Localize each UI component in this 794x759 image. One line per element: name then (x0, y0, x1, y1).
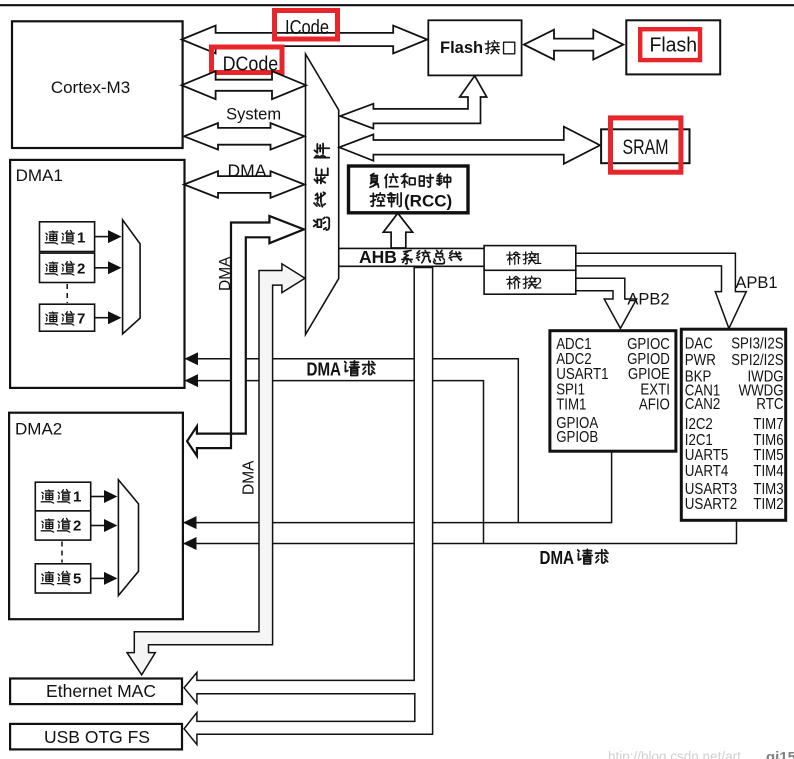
svg-text:TIM5: TIM5 (753, 447, 783, 464)
block Cortex-M3 (12, 21, 183, 148)
svg-text:5: 5 (73, 570, 81, 587)
svg-text:Flash: Flash (650, 35, 698, 57)
label RCC line2 (370, 193, 385, 206)
arrow DMA dma1-matrix (184, 171, 305, 198)
block DMA1 channel 7 (40, 304, 95, 331)
label DMA vertical 2 (241, 460, 258, 495)
block Flash interface (428, 20, 521, 75)
wire DMA2 request upper (183, 452, 612, 523)
label 通道2 (45, 262, 57, 275)
bus APB2 (576, 278, 637, 328)
block USB OTG FS (10, 724, 182, 750)
svg-text:htip://blog.csdn.net/art: htip://blog.csdn.net/art (608, 749, 741, 759)
wire DMA1 request lower (185, 381, 484, 544)
arrow channel 2 to mux (95, 267, 109, 269)
block bridge2 (484, 270, 576, 294)
bus AHB to Ethernet and USB fill (184, 268, 433, 745)
label 通道1 (45, 231, 57, 244)
svg-text:DMA: DMA (217, 256, 234, 291)
svg-text:SRAM: SRAM (623, 136, 669, 159)
arrow dma2 channel to mux (91, 496, 105, 498)
svg-text:TIM1: TIM1 (556, 397, 586, 414)
label DCode red box (212, 47, 283, 73)
svg-text:AHB: AHB (359, 247, 397, 267)
block DMA2 channel 2 (35, 511, 90, 540)
arrow matrix to SRAM (339, 127, 600, 164)
bus APB1 (576, 253, 746, 328)
svg-text:DMA: DMA (307, 360, 342, 380)
svg-text:USART2: USART2 (685, 496, 737, 513)
bus channel DMA2 to matrix (187, 216, 304, 456)
arrow ICode (182, 26, 428, 54)
arrow channel 1 to mux (95, 236, 109, 238)
block DMA1 (10, 160, 184, 388)
block DMA2 channel 1 (35, 482, 90, 511)
block RCC (349, 166, 469, 213)
arrow matrix to Flash interface (340, 76, 487, 129)
svg-text:CAN2: CAN2 (685, 396, 720, 413)
dashed line DMA2 channels (61, 542, 63, 563)
svg-text:APB2: APB2 (627, 291, 669, 309)
arrow dma2 channel to mux (91, 525, 105, 527)
red box Flash (640, 29, 700, 60)
svg-text:gi15: gi15 (766, 749, 794, 759)
svg-text:GPIOB: GPIOB (556, 429, 598, 446)
svg-text:PWR: PWR (685, 352, 716, 369)
block Flash (626, 20, 720, 74)
svg-text:AFIO: AFIO (639, 397, 670, 414)
block DMA1 channel 2 (40, 253, 95, 282)
block DMA2 (9, 413, 183, 620)
label 通道5 dma2 (41, 572, 53, 585)
svg-text:(RCC): (RCC) (404, 192, 452, 211)
svg-text:TIM7: TIM7 (753, 416, 783, 433)
svg-text:UART4: UART4 (685, 463, 729, 480)
wire AHB lower (339, 265, 484, 267)
arrow System (184, 123, 305, 150)
block APB2 peripherals (550, 331, 676, 452)
mux DMA2 (118, 480, 138, 596)
svg-text:TIM4: TIM4 (753, 463, 783, 480)
svg-text:System: System (226, 106, 281, 124)
svg-text:1: 1 (77, 230, 85, 247)
svg-text:Flash: Flash (440, 39, 483, 57)
label 通道2 dma2 (41, 519, 53, 532)
mux DMA1 (123, 220, 141, 334)
svg-text:DCode: DCode (223, 52, 279, 75)
wire DMA2 request lower (183, 521, 737, 544)
svg-text:RTC: RTC (756, 396, 783, 413)
svg-text:DMA1: DMA1 (16, 166, 63, 185)
wire DMA1 request upper (185, 359, 519, 523)
svg-text:1: 1 (73, 489, 81, 506)
svg-text:2: 2 (73, 518, 81, 535)
block Ethernet MAC (10, 679, 182, 705)
arrow DCode (182, 71, 306, 99)
block bridge1 (484, 246, 576, 271)
red box SRAM (611, 118, 681, 172)
label DMA vertical 1 (217, 256, 234, 291)
svg-text:2: 2 (534, 276, 543, 293)
label 接口 (485, 41, 499, 54)
svg-text:Ethernet MAC: Ethernet MAC (46, 681, 156, 701)
label 通道1 dma2 (41, 490, 53, 503)
svg-text:I2C2: I2C2 (685, 416, 713, 433)
dashed line DMA1 channels (66, 284, 68, 303)
block DMA1 channel 1 (40, 222, 95, 252)
svg-text:TIM2: TIM2 (753, 496, 783, 513)
svg-text:DMA2: DMA2 (15, 420, 62, 439)
svg-text:2: 2 (77, 261, 85, 278)
svg-text:1: 1 (534, 251, 543, 268)
label 通道7 (45, 312, 57, 325)
svg-text:DAC: DAC (685, 336, 713, 353)
arrow AHB to RCC (383, 213, 412, 248)
svg-text:ICode: ICode (285, 16, 329, 39)
top border line (0, 4, 794, 6)
svg-text:APB1: APB1 (735, 274, 777, 292)
svg-text:Cortex-M3: Cortex-M3 (51, 78, 130, 97)
label 总线矩阵 (314, 144, 329, 230)
svg-text:UART5: UART5 (685, 447, 729, 464)
arrow Flash-if to Flash (524, 30, 623, 60)
svg-text:SPI2/I2S: SPI2/I2S (731, 352, 783, 369)
block DMA2 channel 5 (35, 564, 90, 593)
bus matrix (306, 54, 339, 335)
svg-text:DMA: DMA (241, 460, 258, 495)
arrow channel 3 to mux (95, 317, 109, 319)
arrow dma2 channel to mux (91, 577, 105, 579)
bus channel matrix to Ethernet MAC (127, 264, 305, 675)
svg-text:USB OTG FS: USB OTG FS (44, 727, 150, 747)
svg-text:SPI3/I2S: SPI3/I2S (731, 336, 783, 353)
wire AHB upper (339, 247, 484, 249)
label ICode red box (275, 11, 338, 40)
block APB1 peripherals (681, 329, 785, 520)
label RCC line1 (370, 173, 379, 187)
svg-text:DMA: DMA (540, 548, 575, 568)
svg-text:DMA: DMA (228, 160, 267, 180)
svg-text:7: 7 (77, 311, 85, 328)
block SRAM (601, 129, 689, 163)
